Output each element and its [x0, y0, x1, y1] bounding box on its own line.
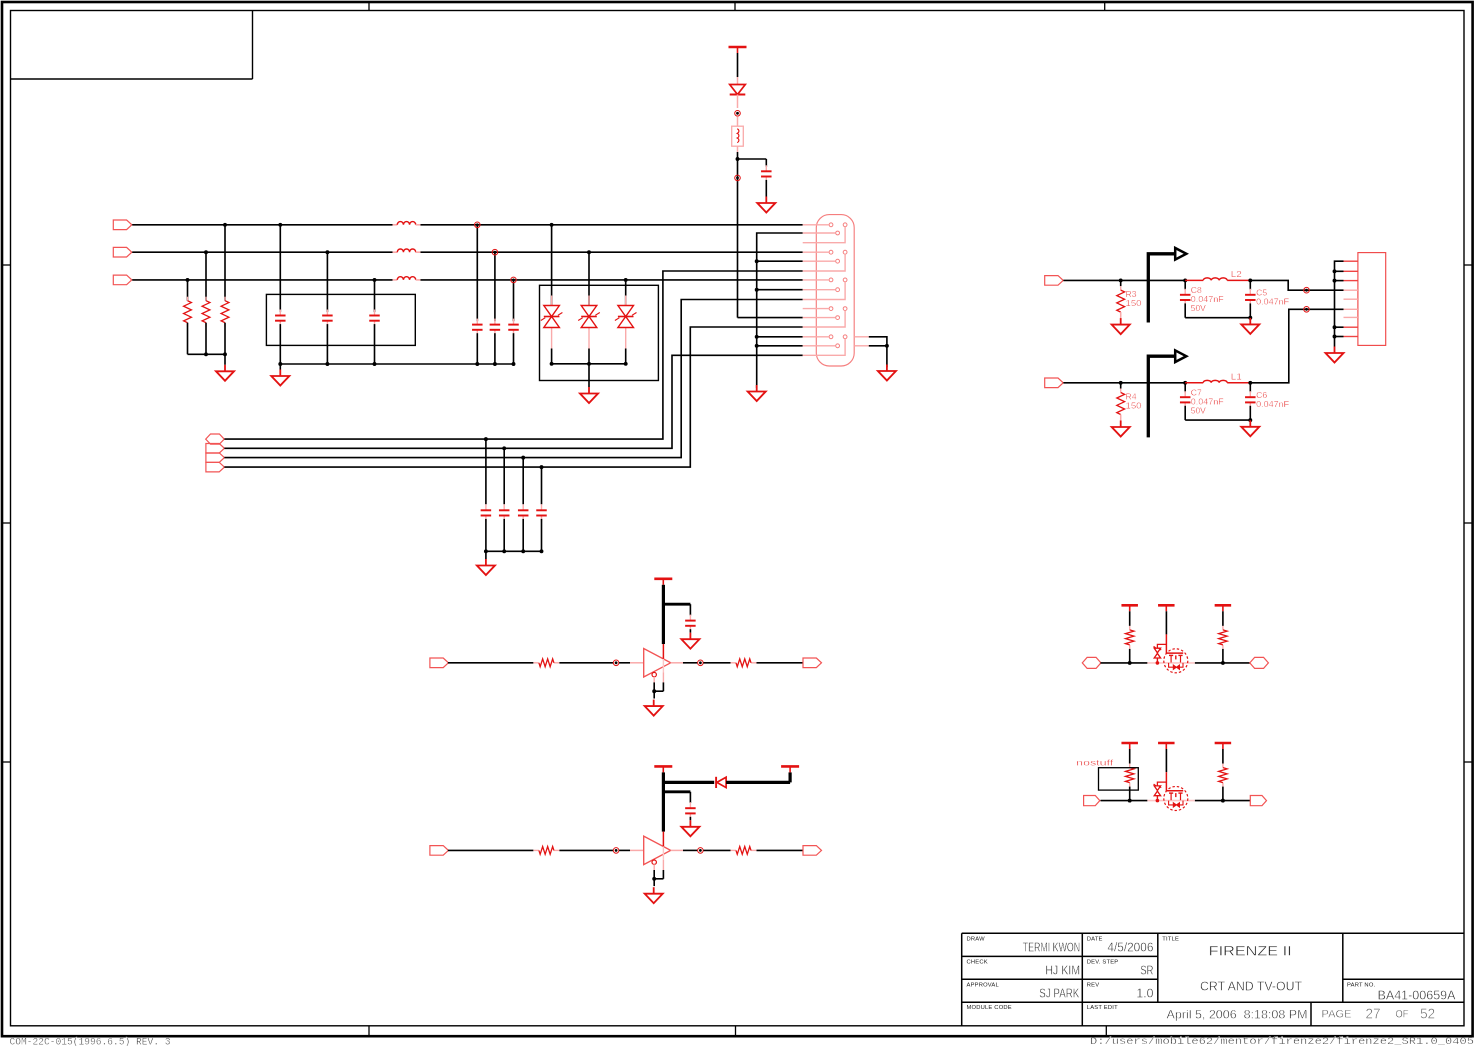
wire TV luma C1 to bus [1184, 303, 1186, 317]
diode D (series) [730, 85, 746, 109]
wire cap trio2-2 to bus [494, 333, 496, 364]
power rail (level shifter B left pull-up) [1121, 743, 1138, 749]
pin ring trio2-2 [492, 249, 498, 255]
svg-text:BA41-00659A: BA41-00659A [1378, 989, 1457, 1003]
wire sync cap 2 to bus [503, 519, 505, 551]
label L2 [1231, 269, 1242, 279]
svg-text:HJ KIM: HJ KIM [1045, 963, 1080, 978]
transistor Q level shifter B (dual FET) [1164, 787, 1188, 811]
footer file path [1090, 1036, 1474, 1046]
wire resistor 3 to bus [187, 323, 189, 355]
wire cap2 to bus [326, 324, 328, 364]
wire gnd stub y261.2 [757, 260, 803, 262]
junction gnd bus y289.7 [755, 288, 759, 292]
label C6 [1256, 390, 1289, 409]
wire cap1 to bus [279, 324, 281, 364]
label L1 [1231, 371, 1242, 381]
wire VGA shield stubs [854, 337, 887, 368]
capacitor C trio1-1 [275, 310, 286, 327]
junction shield [885, 344, 889, 348]
svg-text:1.0: 1.0 [1136, 986, 1153, 1001]
wire video buffer 1 VCC pin [662, 644, 664, 659]
wire TV chroma C1 to bus [1184, 406, 1186, 420]
wire video buffer 2 cap-gnd [689, 817, 691, 821]
junction trio2-1 bus [475, 362, 479, 366]
wire cap3 tap [374, 280, 376, 312]
label C8 [1191, 285, 1224, 313]
wire TVS1 tap [551, 225, 553, 306]
wire cap3 to bus [374, 324, 376, 364]
ground (resistor trio) [216, 365, 234, 381]
capacitor C6 [1245, 391, 1256, 408]
op-amp buffer video buffer 1 [644, 649, 671, 678]
wire ring to fuse [737, 116, 739, 126]
wire video line 3 (left) [132, 279, 392, 281]
junctions resistor bus [204, 352, 227, 356]
pin ring video buffer 2 in [613, 848, 619, 854]
wire TVS bus to ground [588, 364, 590, 387]
wire video buffer 1 in [448, 662, 534, 664]
svg-text:D:/users/mobile62/mentor/firen: D:/users/mobile62/mentor/firenze2/firenz… [1090, 1036, 1474, 1046]
svg-text:50V: 50V [1191, 303, 1206, 313]
wire video buffer 1 buffer gnd pins [652, 672, 663, 698]
port level shifter A right [1250, 657, 1269, 668]
ground (VGA gnd bus) [748, 385, 766, 401]
power rail (video buffer 2 buffer) [654, 766, 672, 772]
wire resistor 2 to bus [205, 323, 207, 355]
inductor L2 [1203, 278, 1227, 280]
title block: PART NO value [1378, 989, 1457, 1003]
transistor Q level shifter A (dual FET) [1164, 649, 1188, 673]
capacitor (video buffer 1 supply) [685, 615, 696, 632]
svg-text:150: 150 [1126, 298, 1142, 308]
wire TV chroma C2 drop [1249, 383, 1251, 393]
junction TV luma R tap [1119, 278, 1123, 282]
connector VGA pin circles [829, 223, 847, 348]
wire sync bus to ground [485, 551, 487, 559]
svg-text:CRT AND TV-OUT: CRT AND TV-OUT [1200, 979, 1302, 994]
junction TV chroma R tap [1119, 381, 1123, 385]
ground (TV chroma caps) [1241, 420, 1259, 436]
junction sync cap 1 [484, 437, 488, 553]
pin ring chroma [1304, 307, 1310, 313]
ground (cap trios) [271, 370, 289, 386]
wire TV chroma pin to coil [1185, 382, 1203, 384]
wire level shifter B left pull-up [1129, 749, 1131, 764]
ground (R3) [1112, 318, 1130, 334]
wire sync cap 3 tap [522, 458, 524, 505]
ground (TVS array) [580, 387, 598, 403]
wire video buffer 2 VCC (thick) [662, 772, 665, 831]
wire video buffer 1 out [703, 662, 730, 664]
title block: REV value [1136, 986, 1153, 1001]
port R input [113, 220, 132, 230]
port DDC/SYNC 2 [206, 444, 225, 454]
wire level shifter A gate feed [1165, 611, 1167, 634]
svg-text:4/5/2006: 4/5/2006 [1107, 940, 1153, 955]
wire level shifter A zener link [1157, 644, 1166, 648]
pin ring luma [1304, 287, 1310, 293]
wire video line 3 (right) [420, 279, 802, 281]
wire level shifter A left pull-up [1129, 611, 1131, 626]
wire level shifter B left [1101, 800, 1148, 802]
inductor ferrite line 3 [393, 277, 421, 280]
power rail (level shifter B gate) [1158, 743, 1175, 749]
junctions cap bus [278, 362, 376, 366]
wire gnd stub y336.8 [757, 336, 803, 338]
wire level shifter B right pull-up [1222, 749, 1224, 764]
wire cap trio2-3 tap [513, 280, 515, 321]
junction level shifter B right [1221, 799, 1225, 803]
capacitor (5V filter) [761, 165, 772, 182]
wire sync cap 1 to bus [485, 519, 487, 551]
title block grid [962, 933, 1464, 1026]
svg-text:DATE: DATE [1087, 936, 1103, 942]
power rail +5V (top) [729, 47, 747, 53]
wire cap trio2-3 to bus [513, 333, 515, 364]
capacitor C5 [1245, 289, 1256, 306]
wire video buffer 2 cap branch [663, 792, 690, 803]
wire TV chroma main [1063, 382, 1185, 384]
svg-text:L2: L2 [1231, 269, 1242, 279]
svg-text:CHECK: CHECK [967, 959, 988, 965]
wire level shifter B zener link [1157, 782, 1166, 786]
capacitor C trio2-1 [472, 319, 483, 336]
wire resistor tap 1 [224, 225, 226, 301]
junctions resistor taps [186, 223, 227, 282]
port G input [113, 247, 132, 257]
junction sync cap 3 [521, 456, 525, 554]
junction trio2-2 bus [493, 362, 497, 366]
capacitor sync 2 [499, 504, 510, 521]
bus entry arrow (luma) [1148, 248, 1186, 323]
pin ring video buffer 2 out [683, 848, 703, 854]
wire level shifter A right [1195, 662, 1250, 664]
component box (TVS array) [540, 285, 659, 380]
junction TVS1 tap [550, 223, 554, 227]
power rail (level shifter A left pull-up) [1121, 605, 1138, 611]
wire level shifter A right pull-up [1222, 611, 1224, 626]
resistor termination 2 [202, 297, 210, 327]
wire video buffer 1 ring-buffer [619, 662, 644, 664]
wire VGA ground bus [757, 233, 803, 388]
wire video line 1 (left) [132, 224, 392, 226]
ground (VGA shield) [878, 365, 896, 381]
pin ring fuse top [735, 111, 741, 117]
title block: CHECK value [1045, 963, 1080, 978]
wire cap trio2-1 tap [476, 225, 478, 321]
wire video buffer 1 buffer out pin [671, 662, 683, 664]
junctions TVS bus [550, 362, 628, 366]
resistor termination 3 [184, 297, 192, 327]
svg-text:OF: OF [1396, 1008, 1409, 1020]
pin ring trio2-1 [475, 222, 481, 228]
label nostuff [1076, 758, 1114, 768]
junction TVS3 tap [624, 278, 628, 282]
wire chroma to connector [1250, 309, 1343, 383]
wire TVS3 tap [625, 280, 627, 306]
capacitor C8 [1180, 289, 1191, 306]
port video buffer 2 in [430, 846, 449, 856]
wire TVS2 tap [588, 252, 590, 305]
wire TVS ground bus [552, 363, 626, 365]
label R4 [1126, 391, 1142, 410]
wire level shifter A left pull-dn [1129, 649, 1131, 663]
svg-text:nostuff: nostuff [1076, 758, 1114, 768]
svg-text:SJ PARK: SJ PARK [1039, 986, 1079, 1001]
wire level shifter B right pull-dn [1222, 787, 1224, 801]
wire TV luma C2 to bus [1249, 303, 1251, 317]
inductor ferrite line 2 [393, 249, 421, 252]
port B input [113, 275, 132, 285]
resistor level shifter B right pull-up [1219, 764, 1227, 787]
svg-text:SR: SR [1140, 963, 1153, 978]
resistor video buffer 1 series in [533, 659, 559, 667]
port TV luma [1045, 276, 1064, 286]
junction sync cap 4 [540, 465, 544, 553]
power rail (level shifter B right pull-up) [1215, 743, 1232, 749]
wire cap trio2-2 tap [494, 252, 496, 321]
wire TV gnd bus [1335, 261, 1344, 346]
capacitor sync 4 [536, 504, 547, 521]
wire +5V to VGA pin 9 [738, 317, 803, 319]
wire TV luma cap bus [1185, 317, 1250, 319]
wire TV chroma R to gnd [1120, 415, 1122, 422]
port level shifter B right [1250, 796, 1266, 806]
wire sync line 4 [224, 327, 802, 467]
resistor video buffer 1 series out [731, 659, 757, 667]
resistor video buffer 2 series out [731, 847, 757, 855]
wire gnd stub y289.7 [757, 289, 803, 291]
svg-text:LAST EDIT: LAST EDIT [1087, 1005, 1118, 1011]
junction gnd bus y261.2 [755, 259, 759, 263]
wire TV chroma cap bus [1185, 419, 1250, 421]
TVS diode 2 [578, 296, 600, 349]
capacitor C trio2-3 [508, 319, 519, 336]
title block: DEV STEP value [1140, 963, 1153, 978]
wire sync cap 4 to bus [541, 519, 543, 551]
resistor level shifter A left pull-up [1126, 626, 1134, 649]
wire video buffer 1 to buffer [559, 662, 613, 664]
capacitor sync 3 [518, 504, 529, 521]
wire branch to cap [738, 159, 767, 167]
resistor R3 [1117, 286, 1125, 316]
svg-text:TERMI KWON: TERMI KWON [1023, 940, 1081, 955]
ground (R4) [1112, 421, 1130, 437]
connector TV-out pin stubs [1344, 261, 1358, 336]
op-amp buffer video buffer 2 [644, 836, 671, 865]
junction TV luma bus [1248, 316, 1252, 320]
wire level shifter B right [1195, 800, 1250, 802]
pin ring video buffer 1 out [683, 660, 703, 666]
wire resistor 1 to bus [224, 323, 226, 355]
svg-text:PART NO.: PART NO. [1347, 982, 1376, 988]
wire cap to ground [765, 180, 767, 197]
title block: TITLE line1 [1209, 944, 1292, 959]
pin ring video buffer 1 in [613, 660, 619, 666]
capacitor (video buffer 2 supply) [685, 802, 696, 819]
wire resistor bus to ground [224, 354, 226, 365]
wire cap bus to ground [279, 364, 281, 370]
wire level shifter A left [1101, 662, 1148, 664]
wire TV luma C1 drop [1184, 280, 1186, 290]
wire sync line 3 [224, 300, 802, 458]
capacitor C trio2-2 [490, 319, 501, 336]
resistor level shifter B left pull-up [1126, 764, 1134, 787]
capacitor sync 1 [481, 504, 492, 521]
TVS diode 1 [541, 296, 563, 349]
power rail (level shifter A right pull-up) [1215, 605, 1232, 611]
fuse F (box) [732, 126, 744, 146]
label C7 [1191, 387, 1224, 415]
port TV chroma [1045, 378, 1064, 388]
power rail 2 (video buffer 2) [781, 766, 799, 772]
connector VGA DB15 body [816, 215, 854, 366]
wire level shifter A through fet [1147, 662, 1195, 664]
wire video buffer 2 buffer out pin [671, 849, 683, 851]
wire TV chroma C1 drop [1184, 383, 1186, 393]
svg-text:DEV. STEP: DEV. STEP [1087, 959, 1119, 965]
svg-text:REV: REV [1087, 982, 1100, 988]
wire sync cap 1 tap [485, 439, 487, 504]
ground (video buffer 1 buffer) [645, 700, 663, 716]
wire TVS1 to bus [551, 349, 553, 364]
power rail (video buffer 1 buffer) [654, 579, 672, 585]
wire level shifter B through fet [1147, 800, 1195, 802]
svg-text:52: 52 [1420, 1006, 1435, 1022]
wire resistor tap 2 [205, 252, 207, 301]
label R3 [1126, 289, 1142, 308]
wire TV luma R to gnd [1120, 312, 1122, 319]
wire TV luma main [1063, 279, 1185, 281]
wire sync cap 4 tap [541, 467, 543, 504]
resistor level shifter A right pull-up [1219, 626, 1227, 649]
wire TVS2 to bus [588, 349, 590, 364]
wire video buffer 2 to buffer [559, 849, 613, 851]
svg-text:L1: L1 [1231, 371, 1242, 381]
capacitor C trio1-2 [322, 310, 333, 327]
port level shifter B left [1084, 796, 1100, 806]
wire TV luma C2 drop [1249, 280, 1251, 290]
revision box (top-left, empty) [11, 11, 253, 80]
junction TV chroma C2 tap [1248, 381, 1252, 385]
svg-text:50V: 50V [1191, 405, 1206, 415]
connector VGA pin stubs [803, 225, 845, 355]
wire TV chroma R drop [1120, 383, 1122, 389]
junction TV chroma C1 tap [1183, 381, 1187, 385]
wire video buffer 1 cap branch [663, 604, 690, 615]
wire video line 2 (left) [132, 251, 392, 253]
wire video buffer 2 to out port [757, 849, 804, 851]
junction TVS2 tap [587, 250, 591, 254]
ground (sync caps) [477, 559, 495, 575]
junction level shifter A left [1128, 661, 1132, 665]
junction TV luma C1 tap [1183, 278, 1187, 282]
port video buffer 1 out [803, 658, 822, 668]
resistor video buffer 2 series in [533, 847, 559, 855]
junction TV luma C2 tap [1248, 278, 1252, 282]
power rail (level shifter A gate) [1158, 605, 1175, 611]
junction trio2-3 bus [512, 362, 516, 366]
wire +5V to diode [737, 53, 739, 85]
junction gnd bus y336.8 [755, 335, 759, 339]
ground (5V filter cap) [757, 197, 775, 213]
footer form number [10, 1037, 171, 1046]
svg-text:150: 150 [1126, 400, 1142, 410]
wire video buffer 2 diode branch (thick) [663, 781, 714, 784]
wire sync cap bus [486, 550, 542, 552]
wire level shifter B gate feed [1165, 749, 1167, 772]
title block: PAGE [1322, 1006, 1436, 1022]
wire cap trio2-1 to bus [476, 333, 478, 364]
wire level shifter B gate (red) [1166, 772, 1183, 791]
port video buffer 1 in [430, 658, 449, 668]
capacitor C7 [1180, 391, 1191, 408]
wire level shifter A right pull-dn [1222, 649, 1224, 663]
wire TV chroma C2 to bus [1249, 406, 1251, 420]
ground (video buffer 2 buffer) [645, 887, 663, 903]
wire video buffer 2 in [448, 849, 534, 851]
wire video line 2 (right) [420, 251, 802, 253]
ground (TV luma caps) [1241, 318, 1259, 334]
wire TV luma coil to C2 [1227, 279, 1250, 281]
svg-text:APPROVAL: APPROVAL [967, 982, 1000, 988]
ground (video buffer 1 supply cap) [681, 633, 699, 649]
ground (video buffer 2 supply cap) [681, 820, 699, 836]
title block: LAST EDIT value [1167, 1007, 1308, 1021]
junction sync cap 2 [502, 446, 506, 553]
bus entry arrow (chroma) [1148, 350, 1186, 437]
wire video buffer 2 out [703, 849, 730, 851]
wire sync cap 3 to bus [522, 519, 524, 551]
svg-text:DRAW: DRAW [967, 936, 986, 942]
svg-text:27: 27 [1366, 1006, 1381, 1022]
wire TV gnd stubs [1333, 269, 1344, 338]
inductor ferrite line 1 [393, 222, 421, 225]
wire resistor tap 3 [187, 280, 189, 301]
junction cap3 tap [373, 278, 377, 282]
svg-text:COM-22C-015(1996.6.5) REV. 3: COM-22C-015(1996.6.5) REV. 3 [10, 1037, 171, 1046]
wire gnd stub y345.8 [757, 345, 803, 347]
zener diode level shifter A [1154, 646, 1162, 664]
ground (TV connector) [1326, 347, 1344, 363]
svg-text:April 5, 2006 8:18:08 PM: April 5, 2006 8:18:08 PM [1167, 1007, 1308, 1021]
wire cap1 tap [279, 225, 281, 312]
svg-text:0.047nF: 0.047nF [1256, 296, 1289, 306]
junction level shifter B left [1128, 799, 1132, 803]
capacitor C trio1-3 [369, 310, 380, 327]
svg-text:TITLE: TITLE [1162, 936, 1179, 942]
port video buffer 2 out [803, 846, 822, 856]
wire video line 1 (right) [420, 224, 802, 226]
wire video buffer 1 cap-gnd [689, 629, 691, 633]
component box (cap trio 1) [266, 294, 415, 345]
port DDC/SYNC 3 [206, 453, 225, 463]
zener diode level shifter B [1154, 784, 1162, 802]
junction cap2 tap [325, 250, 329, 254]
resistor termination 1 [221, 297, 229, 327]
wire resistor common bus [188, 353, 226, 355]
svg-text:PAGE: PAGE [1322, 1008, 1352, 1020]
wire video buffer 1 VCC (thick) [662, 585, 665, 644]
junction TV chroma bus [1248, 418, 1252, 422]
wire video buffer 2 VCC pin [662, 832, 664, 847]
port DDC/SYNC 1 (hex) [206, 434, 225, 444]
wire luma to connector [1250, 280, 1343, 290]
port level shifter A left [1082, 657, 1101, 668]
resistor R4 [1117, 389, 1125, 419]
junction cap1 tap [278, 223, 282, 227]
